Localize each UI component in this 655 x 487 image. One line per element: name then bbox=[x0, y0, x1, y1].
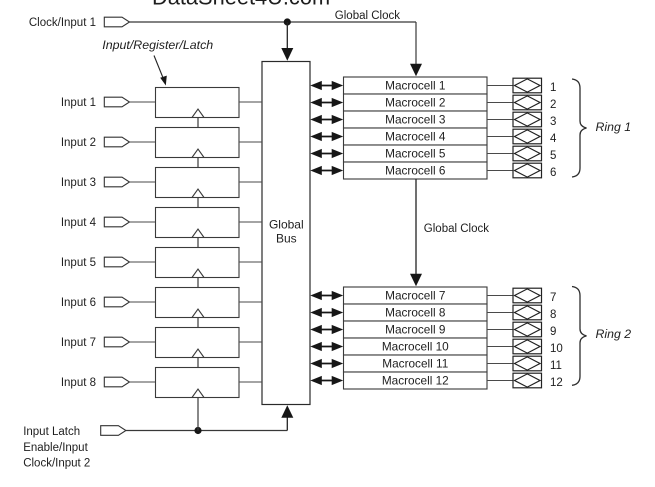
svg-text:Input 4: Input 4 bbox=[61, 217, 97, 229]
svg-text:Input/Register/Latch: Input/Register/Latch bbox=[102, 38, 213, 52]
wire register 6 to Global Bus bbox=[239, 301, 262, 303]
register/latch box 4 bbox=[156, 208, 240, 238]
pin number 5 bbox=[550, 150, 556, 162]
register/latch box 3 bbox=[156, 168, 240, 198]
node Input 2 label bbox=[61, 137, 96, 149]
pin I/O symbol 2 bbox=[513, 95, 542, 110]
wire macrocell 1 to pin bbox=[487, 85, 513, 87]
pin I/O symbol 7 bbox=[513, 288, 542, 303]
node Input 4 label bbox=[61, 217, 97, 229]
svg-text:8: 8 bbox=[550, 309, 556, 321]
svg-text:Clock/Input 1: Clock/Input 1 bbox=[29, 17, 96, 29]
wire global clock down to Macrocell 1 bbox=[410, 22, 422, 76]
svg-text:12: 12 bbox=[550, 377, 563, 389]
svg-text:Ring 1: Ring 1 bbox=[596, 120, 632, 134]
macrocell 2 box bbox=[344, 94, 488, 111]
wire Input 3 to register bbox=[130, 181, 156, 183]
label Global Clock (middle) bbox=[424, 223, 489, 235]
macrocell 8 box bbox=[344, 304, 488, 321]
pin I/O symbol 6 bbox=[513, 163, 542, 178]
node Input Latch Enable label bbox=[23, 426, 90, 469]
pin number 8 bbox=[550, 309, 556, 321]
node Input 8 label bbox=[61, 377, 96, 389]
pin I/O symbol 1 bbox=[513, 78, 542, 93]
node Clock/Input 1 label bbox=[29, 17, 96, 29]
svg-text:Bus: Bus bbox=[276, 232, 297, 246]
node Input 6 label bbox=[61, 297, 96, 309]
macrocell 6 box bbox=[344, 162, 488, 179]
wire macrocell 5 to pin bbox=[487, 153, 513, 155]
pin number 4 bbox=[550, 133, 557, 145]
svg-text:Macrocell 8: Macrocell 8 bbox=[385, 306, 446, 320]
wire clock chain segment 3 bbox=[197, 198, 199, 208]
wire Input 6 to register bbox=[130, 301, 156, 303]
svg-text:Input 5: Input 5 bbox=[61, 257, 96, 269]
brace Ring 1 bbox=[572, 79, 587, 177]
label Ring 2 bbox=[596, 327, 632, 341]
wire register 3 to Global Bus bbox=[239, 181, 262, 183]
svg-text:Macrocell 4: Macrocell 4 bbox=[385, 130, 446, 144]
svg-text:9: 9 bbox=[550, 326, 556, 338]
pin I/O symbol 3 bbox=[513, 112, 542, 127]
macrocell 11 box bbox=[344, 355, 488, 372]
node Input 1 label bbox=[61, 97, 96, 109]
svg-text:6: 6 bbox=[550, 167, 556, 179]
wire clock chain segment 1 bbox=[197, 118, 199, 128]
node Input 3 label bbox=[61, 177, 96, 189]
label Ring 1 bbox=[596, 120, 632, 134]
svg-text:Macrocell 7: Macrocell 7 bbox=[385, 289, 445, 303]
wire register 2 to Global Bus bbox=[239, 141, 262, 143]
Global Bus box bbox=[262, 62, 310, 405]
pin I/O symbol 9 bbox=[513, 322, 542, 337]
wire bidirectional bus arrow 3 bbox=[310, 115, 343, 124]
macrocell 12 box bbox=[344, 372, 488, 389]
wire Input 5 to register bbox=[130, 261, 156, 263]
wire macrocell 12 to pin bbox=[487, 380, 513, 382]
wire input latch enable horizontal bbox=[126, 430, 287, 432]
wire macrocell 10 to pin bbox=[487, 346, 513, 348]
svg-text:1: 1 bbox=[550, 82, 556, 94]
wire Input 2 to register bbox=[130, 141, 156, 143]
wire bidirectional bus arrow 4 bbox=[310, 132, 343, 141]
macrocell 10 box bbox=[344, 338, 488, 355]
svg-text:4: 4 bbox=[550, 133, 557, 145]
wire bidirectional bus arrow 11 bbox=[310, 359, 343, 368]
macrocell 9 box bbox=[344, 321, 488, 338]
wire bidirectional bus arrow 8 bbox=[310, 308, 343, 317]
wire clock chain segment 5 bbox=[197, 278, 199, 288]
svg-text:Input 1: Input 1 bbox=[61, 97, 96, 109]
wire macrocell 9 to pin bbox=[487, 329, 513, 331]
input buffer Input 3 bbox=[104, 177, 129, 187]
wire up into Global Bus bottom bbox=[281, 405, 293, 430]
svg-text:Macrocell 3: Macrocell 3 bbox=[385, 113, 446, 127]
svg-text:Ring 2: Ring 2 bbox=[596, 327, 632, 341]
watermark DataSheet4U.com bbox=[152, 0, 330, 10]
pin number 12 bbox=[550, 377, 563, 389]
pin I/O symbol 5 bbox=[513, 146, 542, 161]
pin number 7 bbox=[550, 292, 556, 304]
node Input 5 label bbox=[61, 257, 96, 269]
svg-text:Input 7: Input 7 bbox=[61, 337, 96, 349]
svg-text:2: 2 bbox=[550, 99, 556, 111]
macrocell 4 box bbox=[344, 128, 488, 145]
wire register 4 to Global Bus bbox=[239, 221, 262, 223]
macrocell 3 box bbox=[344, 111, 488, 128]
pin number 2 bbox=[550, 99, 556, 111]
wire register 8 to Global Bus bbox=[239, 381, 262, 383]
wire macrocell 6 to pin bbox=[487, 170, 513, 172]
wire Input 7 to register bbox=[130, 341, 156, 343]
wire clock chain segment 7 bbox=[197, 358, 199, 368]
register/latch box 8 bbox=[156, 368, 240, 398]
input buffer Input 2 bbox=[104, 137, 129, 147]
pin I/O symbol 8 bbox=[513, 305, 542, 320]
pin number 1 bbox=[550, 82, 556, 94]
svg-text:Macrocell 2: Macrocell 2 bbox=[385, 96, 445, 110]
svg-text:7: 7 bbox=[550, 292, 556, 304]
input buffer Input 1 bbox=[104, 97, 129, 107]
svg-text:3: 3 bbox=[550, 116, 556, 128]
wire clock chain segment 6 bbox=[197, 318, 199, 328]
wire bidirectional bus arrow 5 bbox=[310, 149, 343, 158]
wire clock chain segment 2 bbox=[197, 158, 199, 168]
wire Input 8 to register bbox=[130, 381, 156, 383]
input buffer Input 6 bbox=[104, 297, 129, 307]
brace Ring 2 bbox=[572, 287, 587, 386]
input buffer Input Latch Enable bbox=[101, 426, 126, 436]
wire global clock horizontal bbox=[130, 21, 417, 23]
wire register 7 to Global Bus bbox=[239, 341, 262, 343]
svg-text:Macrocell 9: Macrocell 9 bbox=[385, 323, 445, 337]
wire global clock between stacks bbox=[410, 179, 422, 286]
svg-text:Global: Global bbox=[269, 218, 304, 232]
svg-text:DataSheet4U.com: DataSheet4U.com bbox=[152, 0, 330, 10]
register/latch box 5 bbox=[156, 248, 240, 278]
wire macrocell 11 to pin bbox=[487, 363, 513, 365]
pin I/O symbol 10 bbox=[513, 339, 542, 354]
svg-text:Macrocell 12: Macrocell 12 bbox=[382, 374, 449, 388]
input buffer Clock/Input 1 bbox=[104, 17, 129, 27]
wire bidirectional bus arrow 2 bbox=[310, 98, 343, 107]
register/latch box 1 bbox=[156, 88, 240, 118]
pin number 3 bbox=[550, 116, 556, 128]
svg-text:Input 3: Input 3 bbox=[61, 177, 96, 189]
svg-text:Clock/Input 2: Clock/Input 2 bbox=[23, 458, 90, 470]
wire bidirectional bus arrow 10 bbox=[310, 342, 343, 351]
svg-text:10: 10 bbox=[550, 343, 563, 355]
register/latch box 6 bbox=[156, 288, 240, 318]
svg-text:Global Clock: Global Clock bbox=[424, 223, 489, 235]
wire Input 4 to register bbox=[130, 221, 156, 223]
wire register 1 to Global Bus bbox=[239, 101, 262, 103]
node junction top bbox=[284, 18, 291, 25]
label Global Clock (top) bbox=[335, 10, 400, 22]
svg-text:Macrocell 6: Macrocell 6 bbox=[385, 164, 446, 178]
svg-text:Macrocell 10: Macrocell 10 bbox=[382, 340, 449, 354]
wire macrocell 7 to pin bbox=[487, 295, 513, 297]
svg-text:Input 6: Input 6 bbox=[61, 297, 96, 309]
pin I/O symbol 12 bbox=[513, 373, 542, 388]
wire bidirectional bus arrow 7 bbox=[310, 291, 343, 300]
wire bidirectional bus arrow 1 bbox=[310, 81, 343, 90]
node Input 7 label bbox=[61, 337, 96, 349]
label Input/Register/Latch bbox=[102, 38, 213, 52]
wire global clock down to Global Bus bbox=[281, 22, 293, 61]
svg-text:11: 11 bbox=[550, 360, 562, 372]
pin number 9 bbox=[550, 326, 556, 338]
pin I/O symbol 11 bbox=[513, 356, 542, 371]
macrocell 1 box bbox=[344, 77, 488, 94]
wire bidirectional bus arrow 6 bbox=[310, 166, 343, 175]
svg-text:Global Clock: Global Clock bbox=[335, 10, 400, 22]
macrocell 7 box bbox=[344, 287, 488, 304]
wire macrocell 2 to pin bbox=[487, 102, 513, 104]
pin number 6 bbox=[550, 167, 556, 179]
pin I/O symbol 4 bbox=[513, 129, 542, 144]
wire pointer arrow to register box bbox=[154, 56, 167, 86]
wire macrocell 3 to pin bbox=[487, 119, 513, 121]
svg-text:Input 8: Input 8 bbox=[61, 377, 96, 389]
register/latch box 7 bbox=[156, 328, 240, 358]
svg-text:Macrocell 5: Macrocell 5 bbox=[385, 147, 446, 161]
svg-text:Input Latch: Input Latch bbox=[23, 426, 80, 438]
input buffer Input 5 bbox=[104, 257, 129, 267]
svg-text:Enable/Input: Enable/Input bbox=[23, 442, 88, 454]
wire macrocell 4 to pin bbox=[487, 136, 513, 138]
macrocell 5 box bbox=[344, 145, 488, 162]
wire bidirectional bus arrow 12 bbox=[310, 376, 343, 385]
svg-text:5: 5 bbox=[550, 150, 556, 162]
register/latch box 2 bbox=[156, 128, 240, 158]
pin number 11 bbox=[550, 360, 562, 372]
wire macrocell 8 to pin bbox=[487, 312, 513, 314]
input buffer Input 7 bbox=[104, 337, 129, 347]
svg-text:Input 2: Input 2 bbox=[61, 137, 96, 149]
wire clock chain from junction to register 8 bbox=[197, 398, 199, 431]
pin number 10 bbox=[550, 343, 563, 355]
node junction bottom bbox=[194, 427, 201, 434]
input buffer Input 4 bbox=[104, 217, 129, 227]
wire register 5 to Global Bus bbox=[239, 261, 262, 263]
input buffer Input 8 bbox=[104, 377, 129, 387]
svg-text:Macrocell 11: Macrocell 11 bbox=[382, 357, 448, 371]
wire clock chain segment 4 bbox=[197, 238, 199, 248]
wire Input 1 to register bbox=[130, 101, 156, 103]
svg-text:Macrocell 1: Macrocell 1 bbox=[385, 79, 445, 93]
wire bidirectional bus arrow 9 bbox=[310, 325, 343, 334]
